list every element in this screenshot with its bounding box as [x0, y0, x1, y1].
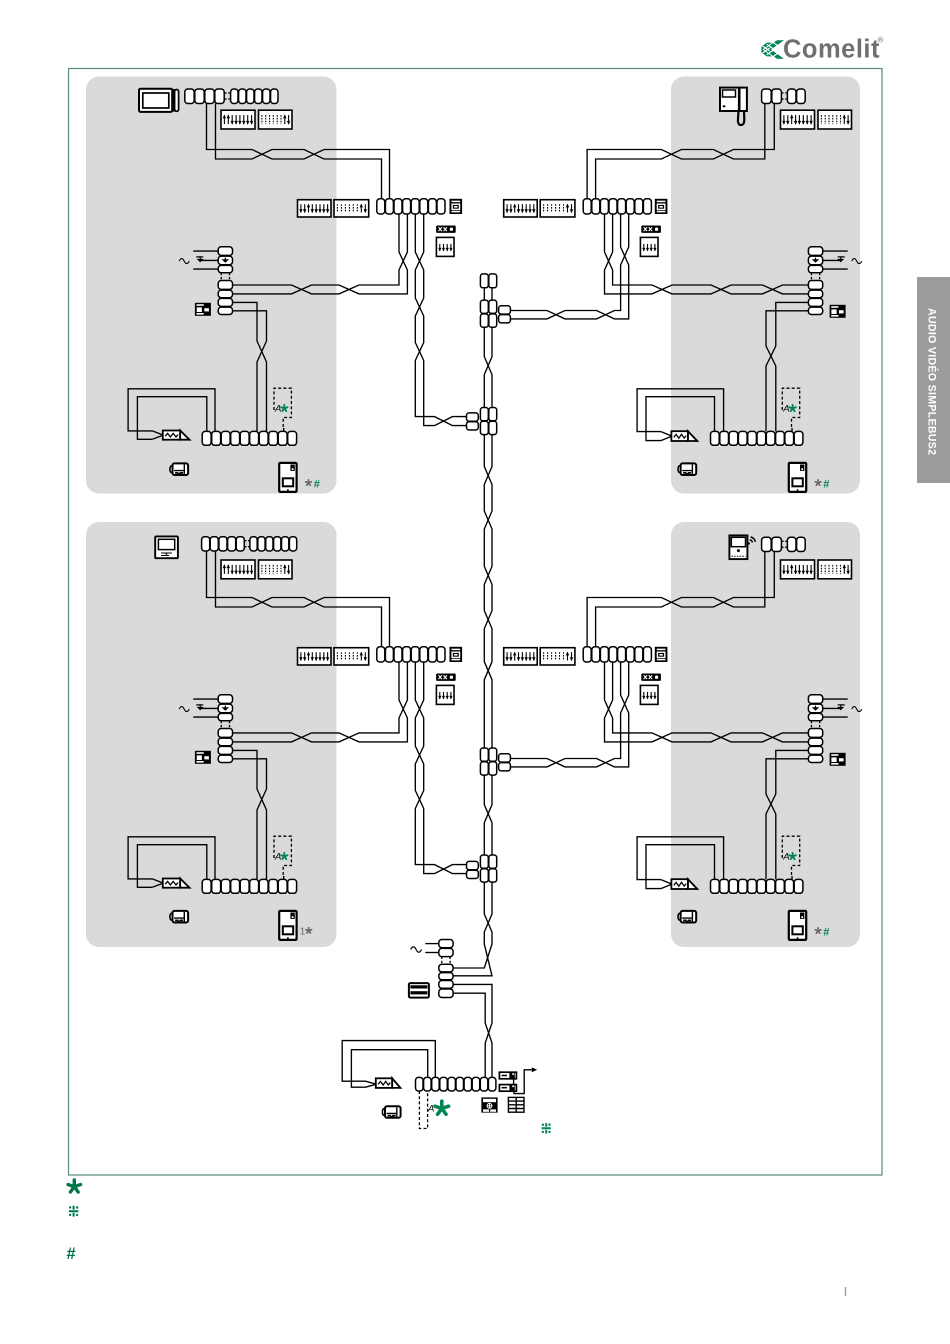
branch mini dip L448 — [436, 685, 454, 704]
wire door loop outer R0 — [637, 389, 724, 432]
branch label plate L0 — [436, 226, 456, 233]
dashed accessory box R0 — [782, 388, 799, 428]
riser head terminals — [480, 274, 496, 288]
branch mini dip R0 — [640, 237, 658, 256]
ground symbol psu R448 — [838, 705, 845, 708]
dip switch monitor-2 L0 — [259, 110, 293, 129]
wire psu-door B L0 — [233, 311, 267, 432]
twisted pair monitor run B L448 — [216, 552, 382, 647]
branch terminal strip R448 — [583, 647, 651, 662]
small device icon L448 — [170, 911, 188, 923]
svg-text:#: # — [823, 926, 829, 938]
speaker unit L0 — [163, 431, 190, 440]
wire riser seg1 A — [483, 288, 485, 300]
label asterisk-hash R0 — [815, 480, 821, 485]
green star accessory R448 — [789, 853, 795, 859]
door terminal strip R448 — [711, 879, 803, 893]
terminal strip monitor BR b — [787, 537, 805, 551]
dip switch monitor-1 L0 — [221, 110, 255, 129]
wire psu-door station A — [453, 984, 492, 1077]
dip switch branch-1 L448 — [298, 648, 332, 665]
wire riser seg1 B — [491, 288, 493, 300]
legend hash-star — [69, 1206, 79, 1217]
wire psu L2 R448 — [823, 716, 848, 718]
name table icon — [508, 1097, 524, 1112]
terminal strip monitor BL a — [202, 537, 245, 551]
branch module icon L448 — [450, 647, 463, 662]
svg-text:#: # — [67, 1245, 76, 1263]
AC symbol mains — [411, 947, 422, 953]
branch4 side terminals — [467, 861, 479, 878]
door entry panel R0 — [789, 463, 806, 492]
wire psu L1 R0 — [823, 250, 848, 252]
small device icon R448 — [678, 911, 696, 923]
branch terminal strip L448 — [377, 647, 445, 662]
apartment block bottom-right — [671, 522, 860, 947]
page mark — [845, 1287, 847, 1296]
branch label plate L448 — [436, 674, 456, 681]
main power supply terminals — [439, 940, 453, 998]
wire door loop outer L0 — [128, 389, 215, 432]
terminal strip phone TR a — [762, 89, 782, 104]
wire psu L1 L0 — [193, 250, 218, 252]
twisted riser seg3 B — [484, 435, 492, 748]
riser branch block 4 — [480, 855, 496, 882]
green hash-star door station — [542, 1123, 551, 1133]
svg-text:#: # — [314, 478, 320, 490]
svg-text:1: 1 — [300, 927, 306, 938]
door station terminal strip — [416, 1077, 496, 1091]
twisted pair branch-center A L448 — [415, 662, 466, 874]
dip switch branch-2 R0 — [540, 200, 575, 217]
riser branch block 2 — [480, 408, 496, 435]
green star accessory L448 — [281, 853, 287, 859]
wire door loop outer L448 — [128, 837, 215, 880]
wire door loop inner R0 — [646, 397, 715, 441]
door entry panel L448 — [279, 911, 296, 940]
Comelit logo chevrons — [761, 40, 784, 59]
legend asterisk — [68, 1180, 81, 1192]
dip switch branch-1 L0 — [298, 200, 332, 217]
twisted pair monitor run B R448 — [596, 552, 765, 647]
svg-text:#: # — [823, 478, 829, 490]
svg-text:A: A — [274, 852, 281, 863]
dashed accessory box L448 — [274, 836, 291, 876]
svg-text:A: A — [427, 1104, 434, 1115]
svg-text:Comelit: Comelit — [783, 36, 880, 64]
dip switch monitor-2 R448 — [818, 560, 852, 579]
green star accessory R0 — [789, 405, 795, 411]
wire arrow into speaker R0 — [661, 432, 672, 441]
dip switch monitor-1 R448 — [781, 560, 815, 579]
dashed accessory box R448 — [782, 836, 799, 876]
handset phone TR — [720, 88, 747, 125]
dashed accessory door station — [419, 1091, 427, 1129]
wire arrow into speaker L448 — [152, 879, 163, 887]
branch mini dip R448 — [640, 685, 658, 704]
relay module R448 — [830, 753, 846, 766]
wire mains L1 — [425, 943, 439, 945]
small device icon L0 — [170, 463, 188, 475]
dip switch branch-2 R448 — [540, 648, 575, 665]
wire psu-door B L448 — [233, 759, 267, 880]
twisted riser seg4 B — [484, 775, 492, 855]
power supply terminals L0 — [218, 247, 232, 315]
wire psu-door A L0 — [233, 302, 267, 431]
twisted pair monitor run A L0 — [207, 104, 390, 199]
label asterisk-hash R448 — [815, 928, 821, 933]
twisted pair branch-center B L0 — [415, 214, 466, 426]
ground symbol psu R0 — [838, 257, 845, 260]
twisted pair monitor run A L448 — [207, 552, 390, 647]
door relay module 2 — [499, 1085, 516, 1092]
big green asterisk — [435, 1101, 449, 1114]
twisted pair branch-psu B R0 — [605, 214, 809, 294]
wire door station loop inner — [351, 1050, 427, 1088]
wire psu ground R0 — [823, 259, 841, 261]
dip switch monitor-2 L448 — [259, 560, 293, 579]
twisted pair branch-psu A R0 — [605, 214, 809, 294]
door terminal strip R0 — [711, 431, 803, 445]
wire psu-door A R0 — [766, 302, 808, 431]
branch terminal strip R0 — [583, 199, 651, 214]
relay module L448 — [195, 751, 211, 764]
dip switch branch-2 L448 — [334, 648, 369, 665]
wire psu ground L0 — [200, 259, 218, 261]
wire arrow into door speaker — [366, 1081, 377, 1087]
small device icon door — [382, 1106, 400, 1118]
dashed accessory box L0 — [274, 388, 291, 428]
branch terminal strip L0 — [377, 199, 445, 214]
wire psu L2 L0 — [193, 268, 218, 270]
terminal strip monitor TL b — [231, 89, 278, 104]
twisted pair branch-psu B L0 — [233, 214, 408, 294]
wire door loop inner L0 — [137, 397, 206, 440]
door terminal strip L448 — [202, 879, 296, 893]
wire door loop outer R448 — [637, 837, 724, 880]
wire psu-door A R448 — [766, 750, 808, 879]
door entry panel L0 — [279, 463, 296, 492]
branch label plate R0 — [641, 226, 661, 233]
wire door station loop outer — [342, 1041, 435, 1082]
wire arrow into speaker R448 — [661, 880, 672, 889]
twisted riser seg5 B — [453, 882, 492, 976]
AC symbol psu R448 — [852, 707, 862, 712]
frame border — [69, 69, 883, 1176]
wire door loop inner R448 — [646, 845, 715, 889]
wire relay link — [513, 1079, 515, 1084]
twisted pair branch-center A R0 — [511, 214, 629, 319]
twisted pair branch-psu A R448 — [605, 662, 809, 742]
door relay module 1 — [499, 1072, 516, 1079]
wifi monitor BR — [729, 535, 755, 559]
branch label plate R448 — [641, 674, 661, 681]
keypad module icon — [481, 1097, 497, 1112]
wire relay out — [514, 1070, 534, 1094]
apartment block bottom-left — [86, 522, 337, 947]
branch1 side terminals — [499, 306, 511, 323]
wire psu-door B R0 — [766, 311, 808, 432]
dip switch branch-2 L0 — [334, 200, 369, 217]
twisted pair branch-center B R0 — [511, 214, 629, 319]
AC symbol psu L448 — [179, 707, 189, 712]
twisted riser seg2 A — [484, 327, 492, 407]
terminal strip phone TR b — [787, 89, 805, 104]
riser branch block 1 — [480, 300, 496, 327]
power supply terminals R0 — [808, 247, 822, 315]
door terminal strip L0 — [202, 431, 296, 445]
dip switch monitor-1 L448 — [221, 560, 255, 579]
terminal strip monitor BL b — [250, 537, 297, 551]
wire psu-door A L448 — [233, 750, 267, 879]
twisted riser seg4 A — [484, 775, 492, 855]
small device icon R0 — [678, 463, 696, 475]
svg-text:AUDIO VIDÉO SIMPLEBUS2: AUDIO VIDÉO SIMPLEBUS2 — [926, 308, 939, 455]
twisted pair monitor run B L0 — [216, 104, 382, 199]
svg-text:®: ® — [878, 36, 884, 45]
ground symbol psu L448 — [196, 705, 203, 708]
branch module icon R448 — [655, 647, 668, 662]
twisted riser seg3 A — [484, 435, 492, 748]
wire psu L2 R0 — [823, 268, 848, 270]
door entry panel R448 — [789, 911, 806, 940]
power supply terminals R448 — [808, 695, 822, 763]
riser branch block 3 — [480, 748, 496, 775]
AC symbol psu R0 — [852, 259, 862, 264]
wire psu L1 L448 — [193, 698, 218, 700]
side tab AUDIO VIDEO SIMPLEBUS2 — [917, 277, 950, 483]
dip switch branch-1 R0 — [504, 200, 538, 217]
twisted pair monitor run A R0 — [587, 104, 774, 199]
twisted pair branch-psu A L0 — [233, 214, 408, 294]
label asterisk-hash L0 — [306, 480, 312, 485]
wire psu L1 R448 — [823, 698, 848, 700]
wire psu ground R448 — [823, 707, 841, 709]
green star accessory L0 — [281, 405, 287, 411]
twisted pair monitor run B R0 — [596, 104, 765, 199]
relay module L0 — [195, 303, 211, 316]
wire arrow into speaker L0 — [152, 431, 163, 439]
twisted pair branch-psu B R448 — [605, 662, 809, 742]
video monitor TL — [139, 89, 179, 112]
dip switch monitor-1 R0 — [781, 110, 815, 129]
wire psu-door station B — [453, 993, 492, 1077]
twisted riser seg5 A — [453, 882, 492, 968]
transformer icon — [409, 983, 429, 998]
dip switch monitor-2 R0 — [818, 110, 852, 129]
branch3 side terminals — [499, 754, 511, 771]
branch module icon R0 — [655, 199, 668, 214]
terminal strip monitor BR a — [762, 537, 782, 551]
svg-text:A: A — [274, 404, 281, 415]
power supply terminals L448 — [218, 695, 232, 763]
relay module R0 — [830, 305, 846, 318]
twisted pair branch-center B L448 — [415, 662, 466, 874]
hands-free monitor BL — [155, 536, 178, 558]
door station speaker — [376, 1078, 401, 1088]
wire psu L2 L448 — [193, 716, 218, 718]
branch2 side terminals — [467, 413, 479, 430]
AC symbol psu L0 — [179, 259, 189, 264]
ground symbol psu L0 — [196, 257, 203, 260]
speaker unit R0 — [671, 431, 697, 441]
wire mains L2 — [425, 952, 439, 954]
wire door loop inner L448 — [137, 845, 206, 888]
twisted riser seg2 B — [484, 327, 492, 407]
twisted pair branch-center A R448 — [511, 662, 629, 767]
twisted pair branch-center B R448 — [511, 662, 629, 767]
twisted pair monitor run A R448 — [587, 552, 774, 647]
Comelit logo checker lines — [763, 41, 781, 58]
speaker unit L448 — [163, 879, 190, 888]
speaker unit R448 — [671, 879, 697, 889]
wire psu-door B R448 — [766, 759, 808, 880]
apartment block top-left — [86, 77, 337, 494]
branch module icon L0 — [450, 199, 463, 214]
twisted pair branch-psu A L448 — [233, 662, 408, 742]
terminal strip monitor TL a — [185, 89, 224, 104]
branch mini dip L0 — [436, 237, 454, 256]
svg-text:A: A — [782, 852, 789, 863]
arrowhead relay out — [532, 1067, 537, 1072]
wire psu ground L448 — [200, 707, 218, 709]
twisted pair branch-psu B L448 — [233, 662, 408, 742]
dip switch branch-1 R448 — [504, 648, 538, 665]
twisted pair branch-center A L0 — [415, 214, 466, 426]
apartment block top-right — [671, 77, 860, 494]
svg-text:A: A — [782, 404, 789, 415]
